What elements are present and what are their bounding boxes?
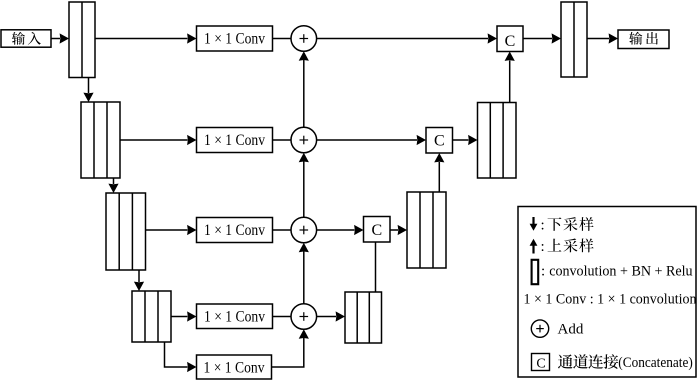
wire A2 up to A1	[303, 60, 305, 128]
wire B3 down to B4	[138, 270, 140, 282]
svg-text::: :	[541, 217, 545, 233]
add node A4	[291, 304, 317, 330]
wire A4 to block B5	[316, 316, 336, 318]
conv block B7	[478, 103, 517, 179]
wire input to block B1	[51, 38, 60, 40]
wire B8 up to C2	[438, 162, 440, 192]
conv block B6	[561, 2, 587, 77]
legend box	[518, 207, 696, 378]
conv block B2	[81, 102, 120, 178]
conv block B5	[345, 292, 382, 343]
wire B6 to output	[587, 38, 609, 40]
legend conv symbol	[532, 260, 539, 284]
1x1 conv box K4	[197, 304, 273, 329]
concat box C1	[497, 26, 523, 52]
wire C1 to block B6	[523, 38, 552, 40]
1x1 conv box K5	[197, 355, 272, 379]
wire K3 to add A3	[273, 229, 292, 231]
input box 输入	[1, 30, 51, 47]
concat box C2	[426, 128, 453, 154]
wire B4 to conv K4	[171, 316, 188, 318]
svg-text:C: C	[371, 222, 382, 239]
wire K1 to add A1	[273, 38, 292, 40]
1x1 conv box K1	[197, 26, 273, 51]
svg-text::: :	[541, 239, 545, 255]
wire K2 to add A2	[273, 139, 292, 141]
add node A2	[291, 127, 317, 153]
add node A3	[291, 217, 317, 243]
wire A4 up to A3	[303, 251, 305, 304]
svg-text:C: C	[505, 33, 516, 50]
wire B4 down to conv K5	[165, 342, 188, 367]
wire B2 to conv K2	[120, 139, 188, 141]
concat box C3	[364, 217, 391, 243]
wire C3 to block B8	[390, 229, 398, 231]
svg-text:1 × 1 Conv : 1 × 1 convolution: 1 × 1 Conv : 1 × 1 convolution	[524, 292, 697, 308]
output box 输出	[618, 30, 669, 49]
wire B7 up to C1	[509, 61, 511, 103]
svg-text:1 × 1 Conv: 1 × 1 Conv	[204, 31, 265, 48]
wire K5 to A4 from below	[272, 338, 304, 367]
1x1 conv box K3	[197, 218, 273, 243]
svg-text:1 × 1 Conv: 1 × 1 Conv	[204, 222, 265, 239]
wire A1 to concat C1	[316, 38, 488, 40]
wire B3 to conv K3	[146, 229, 188, 231]
legend up-sample arrow	[532, 246, 534, 254]
svg-text:Add: Add	[558, 322, 584, 338]
conv block B3	[106, 193, 146, 270]
svg-text:1 × 1 Conv: 1 × 1 Conv	[204, 360, 265, 377]
legend add symbol	[531, 320, 548, 337]
svg-text:1 × 1 Conv: 1 × 1 Conv	[204, 132, 265, 149]
wire B1 to conv K1	[95, 38, 188, 40]
svg-text:1 × 1 Conv: 1 × 1 Conv	[204, 309, 265, 326]
svg-text:convolution + BN + Relu: convolution + BN + Relu	[549, 264, 693, 280]
conv block B1	[69, 2, 95, 78]
svg-text::: :	[541, 264, 545, 280]
wire A3 up to A2	[303, 161, 305, 217]
wire K4 to add A4	[273, 316, 292, 318]
add node A1	[291, 26, 317, 52]
conv block B8	[407, 192, 446, 268]
wire A2 to concat C2	[316, 139, 417, 141]
svg-text:(Concatenate): (Concatenate)	[618, 355, 693, 371]
wire C2 to block B7	[453, 139, 469, 141]
svg-text:C: C	[434, 132, 445, 149]
wire B5 up to C3	[375, 242, 377, 292]
svg-text:C: C	[536, 357, 545, 372]
legend concat symbol	[532, 354, 550, 371]
wire B1 down to B2	[88, 78, 90, 94]
wire A3 to concat C3	[316, 229, 354, 231]
1x1 conv box K2	[197, 128, 273, 153]
conv block B4	[132, 291, 171, 342]
legend down-sample arrow	[532, 217, 534, 225]
wire B2 down to B3	[113, 178, 115, 184]
